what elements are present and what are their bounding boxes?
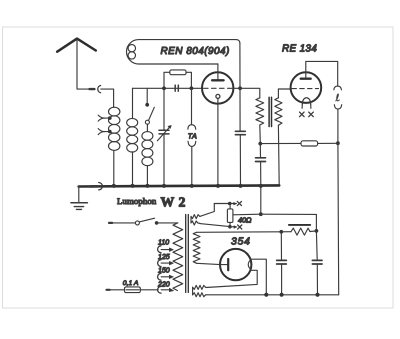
wire ground link right xyxy=(261,214,317,231)
switch regeneration S1 xyxy=(145,107,154,131)
wire primary down xyxy=(259,125,262,144)
svg-text:150: 150 xyxy=(158,267,170,274)
wire heater rail bottom xyxy=(230,226,237,228)
capacitor C4 xyxy=(256,144,266,186)
wire antenna lead-in xyxy=(77,39,94,89)
wire secondary bottom to bus xyxy=(277,125,280,185)
svg-text:RE 134: RE 134 xyxy=(282,44,317,55)
node filter right xyxy=(315,229,319,233)
node R3 top xyxy=(228,202,232,206)
node R3 bottom xyxy=(228,225,232,229)
pin x filament U2 left xyxy=(300,112,305,117)
filament U3 xyxy=(248,260,251,270)
slider bar filter resistor xyxy=(289,224,310,226)
node primary bottom junction xyxy=(258,142,262,146)
resistor R4 filter xyxy=(281,228,316,235)
pin x filament U2 right xyxy=(309,112,314,117)
ground symbol xyxy=(71,187,88,210)
grid U2 dashed xyxy=(292,88,319,90)
capacitor C2 grid xyxy=(175,85,178,91)
wire heater step xyxy=(200,204,215,217)
jack TA pickup input xyxy=(188,88,196,185)
wire heater winding to R3 xyxy=(200,224,230,227)
svg-text:354: 354 xyxy=(231,237,251,248)
tap 125 xyxy=(158,260,174,267)
wire HV top to filter xyxy=(197,231,282,234)
resistor R1 grid leak xyxy=(164,70,191,88)
core T2 power transformer xyxy=(186,215,189,293)
tap antenna coil lower xyxy=(98,129,111,135)
tap 110 xyxy=(158,246,174,253)
node filter left xyxy=(279,230,283,234)
tap antenna coil upper xyxy=(98,115,111,121)
switch mains xyxy=(109,218,178,225)
resistor R3 40 ohm hum balance xyxy=(227,204,233,227)
coil L1 antenna coil xyxy=(109,107,120,185)
label l loudspeaker xyxy=(336,94,340,101)
svg-text:TA: TA xyxy=(188,132,197,141)
wire filament return xyxy=(206,270,257,287)
tube U1 REN804 triode envelope xyxy=(202,72,233,103)
wire HV bottom to rectifier plate xyxy=(197,263,221,264)
plug bus connector xyxy=(90,183,102,190)
tap 150 xyxy=(158,273,174,280)
node bus TA xyxy=(190,184,194,188)
node anode circuit junction xyxy=(238,86,242,90)
anode plate U1 xyxy=(212,64,224,80)
resistor R2 anode feed xyxy=(260,141,338,146)
wire grid out right xyxy=(233,87,240,89)
node output junction xyxy=(336,141,340,145)
wire rail right riser xyxy=(337,143,340,295)
coil L2 grid coil xyxy=(127,88,138,185)
node grid leak left xyxy=(162,86,166,90)
node switch fixed contact xyxy=(145,103,149,107)
winding T2 primary xyxy=(173,223,183,291)
node rail C5 xyxy=(280,293,284,297)
svg-text:125: 125 xyxy=(158,254,170,261)
node bus cathode xyxy=(216,184,220,188)
tube U2 RE134 envelope xyxy=(291,72,322,103)
node rail C6 xyxy=(316,293,320,297)
capacitor C6 xyxy=(312,231,322,295)
node bus L3 xyxy=(145,184,149,188)
capacitor C5 xyxy=(277,232,287,295)
svg-text:110: 110 xyxy=(158,240,169,247)
coil L4 feedback inside box xyxy=(128,45,135,60)
jack L loudspeaker output xyxy=(334,86,342,143)
svg-text:Lumophon: Lumophon xyxy=(117,196,157,206)
wire anode to transformer primary xyxy=(240,88,260,98)
node bus C1 xyxy=(162,184,166,188)
filament U2 xyxy=(302,98,311,109)
capacitor C3 xyxy=(235,131,245,185)
node ground link xyxy=(259,212,263,216)
tube U3 rectifier 354 envelope xyxy=(220,249,251,280)
winding T1 primary xyxy=(256,98,264,125)
anode plate U2 xyxy=(301,61,338,86)
fuse F1 0,1 A xyxy=(107,287,159,293)
winding T2 heater secondary xyxy=(191,215,200,225)
svg-text:40Ω: 40Ω xyxy=(238,215,252,224)
node rail rectifier xyxy=(264,293,268,297)
wire secondary to grid U2 xyxy=(278,89,290,98)
node grid leak right xyxy=(190,86,194,90)
winding T2 HV secondary xyxy=(193,232,200,263)
svg-text:0,1 A: 0,1 A xyxy=(123,280,139,287)
plug antenna connector xyxy=(90,86,101,93)
wire to switch contact xyxy=(146,88,148,104)
capacitor C1 variable tuning xyxy=(157,88,171,185)
wire plug to coil xyxy=(101,89,114,107)
antenna xyxy=(57,39,96,52)
grid U1 dashed xyxy=(204,87,233,89)
winding T2 rectifier filament xyxy=(193,285,206,296)
node bus L2 xyxy=(131,184,135,188)
node bus L1 xyxy=(112,184,116,188)
svg-text:W 2: W 2 xyxy=(161,195,186,210)
cathode U1 xyxy=(216,94,220,185)
pin x heater top xyxy=(234,201,242,205)
node bus C4 xyxy=(259,184,263,188)
pin x heater bottom xyxy=(234,225,242,229)
wire box right edge down xyxy=(239,43,241,131)
rail B+ line xyxy=(206,294,339,296)
wire grid line xyxy=(133,87,203,89)
wire ground link down xyxy=(260,186,262,215)
core T1 interstage transformer xyxy=(269,97,271,126)
node bus C3 xyxy=(239,184,243,188)
coil former box REN804 label box xyxy=(126,40,239,64)
coil L3 regeneration coil xyxy=(142,132,153,186)
winding T1 secondary xyxy=(275,98,282,125)
svg-text:220: 220 xyxy=(157,281,170,288)
bus ground line xyxy=(79,185,280,186)
wire heater rail top xyxy=(214,203,236,205)
wire rectifier output xyxy=(251,259,266,295)
anode plate U3 xyxy=(220,259,228,270)
tap 220 fuse feed xyxy=(158,286,174,293)
svg-text:REN 804(904): REN 804(904) xyxy=(161,46,230,57)
wire ground link left to slider xyxy=(233,213,261,216)
